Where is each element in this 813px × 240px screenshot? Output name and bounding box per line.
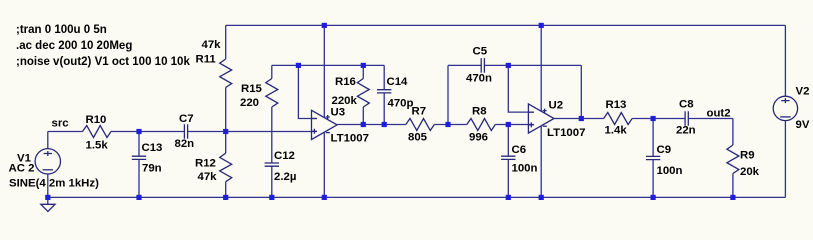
svg-text:src: src bbox=[52, 117, 69, 129]
svg-text:out2: out2 bbox=[707, 108, 731, 120]
svg-text:U3: U3 bbox=[331, 106, 346, 118]
svg-text:C8: C8 bbox=[679, 99, 694, 111]
svg-text:C9: C9 bbox=[657, 144, 672, 156]
svg-text:47k: 47k bbox=[198, 171, 218, 183]
svg-text:;noise v(out2) V1 oct 100 10 1: ;noise v(out2) V1 oct 100 10 10k bbox=[16, 56, 190, 68]
svg-text:47k: 47k bbox=[202, 39, 222, 51]
svg-text:C5: C5 bbox=[473, 46, 488, 58]
svg-text:470n: 470n bbox=[466, 73, 492, 85]
svg-text:LT1007: LT1007 bbox=[331, 133, 369, 145]
svg-text:79n: 79n bbox=[142, 163, 162, 175]
svg-text:22n: 22n bbox=[676, 125, 696, 137]
svg-text:C6: C6 bbox=[512, 144, 527, 156]
svg-text:805: 805 bbox=[408, 132, 428, 144]
svg-text:9V: 9V bbox=[796, 119, 810, 131]
svg-text:R9: R9 bbox=[740, 150, 755, 162]
svg-text:V2: V2 bbox=[796, 86, 810, 98]
svg-text:1.5k: 1.5k bbox=[86, 140, 109, 152]
svg-text:SINE(4 2m 1kHz): SINE(4 2m 1kHz) bbox=[9, 178, 99, 190]
svg-text:C13: C13 bbox=[142, 142, 163, 154]
svg-text:R10: R10 bbox=[86, 114, 107, 126]
svg-text:R8: R8 bbox=[472, 106, 487, 118]
svg-text:R13: R13 bbox=[606, 99, 627, 111]
svg-text:LT1007: LT1007 bbox=[547, 127, 585, 139]
svg-text:R12: R12 bbox=[195, 158, 216, 170]
svg-text:C12: C12 bbox=[274, 150, 295, 162]
svg-text:AC 2: AC 2 bbox=[9, 163, 35, 175]
svg-text:C14: C14 bbox=[387, 76, 409, 88]
svg-text:20k: 20k bbox=[740, 166, 760, 178]
svg-text:U2: U2 bbox=[549, 100, 564, 112]
svg-text:;tran 0 100u 0 5n: ;tran 0 100u 0 5n bbox=[16, 24, 107, 36]
svg-text:R16: R16 bbox=[335, 76, 356, 88]
svg-text:R15: R15 bbox=[241, 83, 263, 95]
svg-text:R7: R7 bbox=[412, 106, 427, 118]
svg-text:C7: C7 bbox=[179, 113, 194, 125]
svg-text:100n: 100n bbox=[657, 165, 683, 177]
svg-text:2.2µ: 2.2µ bbox=[274, 171, 296, 183]
svg-text:220: 220 bbox=[240, 97, 259, 109]
svg-text:R11: R11 bbox=[196, 54, 217, 66]
svg-text:100n: 100n bbox=[512, 163, 538, 175]
svg-text:82n: 82n bbox=[175, 138, 195, 150]
svg-text:220k: 220k bbox=[332, 95, 358, 107]
svg-text:470p: 470p bbox=[388, 98, 414, 110]
svg-text:.ac dec 200 10 20Meg: .ac dec 200 10 20Meg bbox=[16, 40, 132, 52]
svg-text:1.4k: 1.4k bbox=[605, 125, 628, 137]
svg-text:996: 996 bbox=[469, 132, 488, 144]
